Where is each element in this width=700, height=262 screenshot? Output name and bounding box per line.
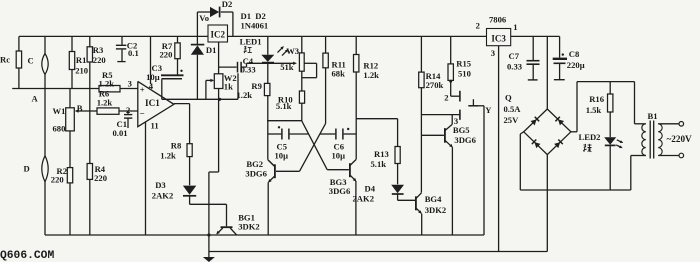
svg-text:D4: D4	[365, 184, 376, 194]
resistor R6 1.2k (horizontal, in B line)	[97, 89, 119, 115]
svg-text:5.1k: 5.1k	[276, 101, 292, 111]
svg-text:4: 4	[149, 81, 154, 91]
svg-text:3: 3	[128, 78, 132, 88]
probe plug Y	[468, 99, 492, 115]
svg-text:1.2k: 1.2k	[97, 97, 113, 107]
wire: AC branch frame	[577, 82, 635, 132]
svg-text:R16: R16	[589, 94, 605, 104]
potentiometer W1 680	[53, 89, 85, 168]
svg-text:210: 210	[75, 66, 88, 76]
pin 3 wire to ground bus	[491, 46, 499, 252]
resistor R3 220	[87, 36, 106, 88]
wire: D4 to BG4 base	[398, 194, 415, 200]
wire: mains terminals ~220V	[658, 122, 692, 158]
resistor R5 1.2k (horizontal, in A line)	[99, 70, 121, 92]
svg-text:Q606.COM: Q606.COM	[0, 250, 54, 262]
resistor R13 5.1k	[371, 147, 401, 185]
svg-text:R1: R1	[76, 55, 87, 65]
node A	[32, 94, 39, 104]
transistor BG2 3DG6	[245, 121, 299, 235]
svg-text:IC2: IC2	[210, 30, 225, 40]
bridge rectifier Q 0.5A 25V	[504, 93, 571, 155]
zener diode D1	[191, 36, 217, 99]
svg-text:R3: R3	[93, 45, 104, 55]
svg-text:BG4: BG4	[425, 194, 442, 204]
svg-text:3DG6: 3DG6	[245, 169, 267, 179]
svg-text:10μ: 10μ	[275, 150, 289, 160]
svg-text:1.2k: 1.2k	[237, 90, 253, 100]
capacitor C5 10u	[268, 126, 309, 160]
wire: transformer primary bottom lead	[631, 156, 646, 191]
svg-text:3: 3	[491, 48, 495, 58]
label: D1 D2 1N4061	[241, 11, 269, 30]
capacitor C7 0.33	[507, 36, 540, 80]
wire: diamond column down to D	[44, 89, 46, 156]
svg-text:Vo: Vo	[199, 13, 209, 23]
svg-text:LED1: LED1	[240, 37, 262, 47]
wire: D to bottom bus	[44, 182, 46, 235]
svg-text:−: −	[140, 109, 145, 119]
transistor BG4 3DK2	[416, 193, 446, 235]
wire: lower ground bus	[209, 251, 547, 253]
svg-text:0.1: 0.1	[128, 48, 139, 58]
svg-text:220μ: 220μ	[567, 60, 585, 70]
wire: bottom bus (emitter rail)	[45, 234, 484, 236]
svg-text:510: 510	[458, 68, 471, 78]
wire: AC bottom line	[520, 189, 631, 191]
svg-text:C8: C8	[569, 49, 580, 59]
transistor BG5 3DG6	[421, 115, 476, 235]
svg-text:LED2: LED2	[579, 132, 601, 142]
diode D2	[210, 0, 232, 17]
svg-text:220: 220	[94, 173, 107, 183]
wire: test point 3 line	[421, 110, 460, 126]
pin 1	[513, 22, 517, 32]
svg-text:3DG6: 3DG6	[329, 186, 351, 196]
IC IC2	[208, 25, 228, 42]
resistor Rc	[0, 36, 22, 88]
LED LED2 (green)	[579, 132, 624, 190]
resistor R8 1.2k	[160, 141, 192, 186]
svg-text:220: 220	[160, 50, 173, 60]
svg-text:10μ: 10μ	[332, 150, 346, 160]
svg-text:C: C	[28, 56, 34, 66]
svg-text:3DK2: 3DK2	[238, 221, 259, 231]
svg-text:0.01: 0.01	[113, 128, 128, 138]
svg-text:1.2k: 1.2k	[99, 78, 115, 88]
wire: bridge AC left branch	[520, 132, 523, 190]
svg-text:Rc: Rc	[0, 54, 10, 64]
svg-text:2AK2: 2AK2	[152, 190, 173, 200]
svg-text:68k: 68k	[332, 69, 346, 79]
wire: +V top bus	[19, 35, 560, 37]
svg-text:2: 2	[476, 21, 480, 31]
svg-text:51k: 51k	[280, 62, 294, 72]
resistor R14 270k	[419, 36, 444, 192]
svg-text:BG5: BG5	[453, 125, 470, 135]
wire: Vo loop with D2	[197, 12, 233, 36]
potentiometer W2 1k	[206, 42, 237, 99]
svg-text:3DK2: 3DK2	[425, 205, 446, 215]
wire: cross-coupling diagonal A	[302, 121, 327, 170]
resistor R1 210	[69, 36, 88, 88]
potentiometer W3 51k	[280, 36, 316, 91]
svg-text:2: 2	[444, 93, 448, 103]
svg-text:IC1: IC1	[145, 98, 160, 108]
wire: D3 to BG1 base	[190, 196, 227, 227]
wire: Y lead down to bus	[483, 106, 485, 235]
capacitor C6 10u	[320, 128, 356, 161]
IC IC3 7806	[487, 14, 511, 45]
transformer B1	[642, 111, 662, 158]
wire: transformer primary top lead	[635, 123, 646, 125]
svg-text:0.33: 0.33	[507, 62, 522, 72]
svg-text:BG2: BG2	[246, 159, 263, 169]
svg-text:D3: D3	[155, 180, 166, 190]
wire: BG2 collector node line	[267, 120, 302, 122]
resistor R9 1.2k	[237, 81, 270, 121]
wire: C4/LED1/W3 line	[247, 62, 297, 65]
capacitor C3 10u (electrolytic)	[146, 63, 183, 99]
capacitor C1 0.01	[113, 111, 133, 138]
transistor BG3 3DG6	[327, 159, 357, 235]
node Vo	[199, 13, 209, 23]
pin 2	[476, 21, 480, 31]
svg-text:0.33: 0.33	[241, 64, 256, 74]
svg-text:Y: Y	[485, 105, 492, 115]
wire: W2 node down to ground	[207, 99, 218, 257]
svg-text:7806: 7806	[489, 14, 507, 24]
pin 3	[128, 78, 132, 88]
resistor R11 68k	[323, 36, 346, 123]
svg-text:R15: R15	[456, 59, 471, 69]
wire: node A line (non-inverting input)	[12, 88, 138, 90]
svg-text:W1: W1	[53, 106, 66, 116]
svg-text:D2: D2	[222, 0, 233, 9]
svg-text:D: D	[24, 163, 30, 173]
resistor R12 1.2k	[354, 36, 380, 159]
svg-text:25V: 25V	[504, 115, 520, 125]
diode D4 2AK2	[353, 184, 405, 204]
wire: bridge - lead to ground bus	[546, 155, 548, 252]
wire: test point 2 line	[444, 80, 460, 103]
svg-text:1.2k: 1.2k	[363, 70, 379, 80]
svg-text:R13: R13	[374, 149, 389, 159]
microphone D (sensor, lens symbol)	[24, 156, 49, 182]
pin 4 (V+) wire	[149, 36, 154, 91]
svg-text:R8: R8	[171, 141, 182, 151]
svg-text:2AK2: 2AK2	[353, 194, 374, 204]
wire: BG3 collector to R13	[356, 119, 397, 147]
svg-text:IC3: IC3	[491, 33, 506, 43]
capacitor C8 220u (electrolytic)	[553, 36, 585, 79]
transistor BG1 3DK2	[215, 213, 260, 236]
ground	[203, 257, 215, 262]
label: watermark Q606.COM	[0, 250, 54, 262]
svg-text:B: B	[77, 103, 83, 113]
label: hong (red)	[244, 46, 252, 53]
resistor R4 220	[87, 89, 107, 236]
svg-text:1: 1	[513, 22, 517, 32]
svg-text:1.2k: 1.2k	[160, 150, 176, 160]
label: lu (green)	[583, 144, 591, 152]
svg-text:~220V: ~220V	[667, 134, 693, 144]
svg-text:C7: C7	[509, 51, 520, 61]
resistor R10 5.1k	[276, 91, 305, 121]
wire: cross-coupling diagonal B	[300, 124, 326, 172]
svg-text:1k: 1k	[224, 82, 233, 92]
svg-text:A: A	[32, 94, 39, 104]
svg-text:0.5A: 0.5A	[504, 104, 522, 114]
svg-text:2: 2	[126, 105, 130, 115]
svg-text:Q: Q	[505, 93, 512, 103]
node B	[77, 103, 83, 113]
pin 11 (V-) wire to bottom bus	[146, 121, 159, 235]
svg-text:W3: W3	[286, 46, 299, 56]
wire: bridge + lead	[546, 36, 548, 109]
wire: feedback line	[162, 98, 238, 101]
LED LED1 (red)	[240, 36, 290, 83]
svg-text:D1: D1	[206, 45, 217, 55]
capacitor C2 0.1	[116, 36, 139, 61]
capacitor C4 0.33	[219, 56, 256, 99]
op-amp IC1	[138, 81, 174, 126]
resistor R7 220	[160, 36, 181, 74]
svg-text:270k: 270k	[426, 80, 444, 90]
svg-text:680: 680	[53, 123, 66, 133]
svg-text:220: 220	[51, 174, 64, 184]
svg-text:11: 11	[151, 121, 159, 131]
svg-text:R9: R9	[251, 81, 262, 91]
diode D3 2AK2	[152, 180, 197, 200]
microphone C (sensor, lens symbol)	[28, 36, 49, 88]
wire: IC1 output	[174, 104, 190, 144]
pin 2	[126, 105, 130, 115]
svg-text:3DG6: 3DG6	[454, 135, 476, 145]
resistor R15 510	[448, 36, 471, 96]
resistor R2 220	[51, 166, 73, 235]
wire: bridge AC right stub	[571, 131, 577, 133]
svg-text:+: +	[140, 85, 145, 95]
svg-text:5.1k: 5.1k	[371, 159, 387, 169]
svg-text:B1: B1	[648, 111, 658, 121]
svg-text:R12: R12	[363, 60, 378, 70]
svg-text:1.5k: 1.5k	[586, 105, 602, 115]
svg-text:220: 220	[93, 55, 106, 65]
svg-text:1N4061: 1N4061	[241, 20, 269, 30]
svg-text:10μ: 10μ	[146, 72, 160, 82]
resistor R16 1.5k	[586, 82, 613, 138]
wire: node B line (inverting input)	[84, 110, 138, 112]
